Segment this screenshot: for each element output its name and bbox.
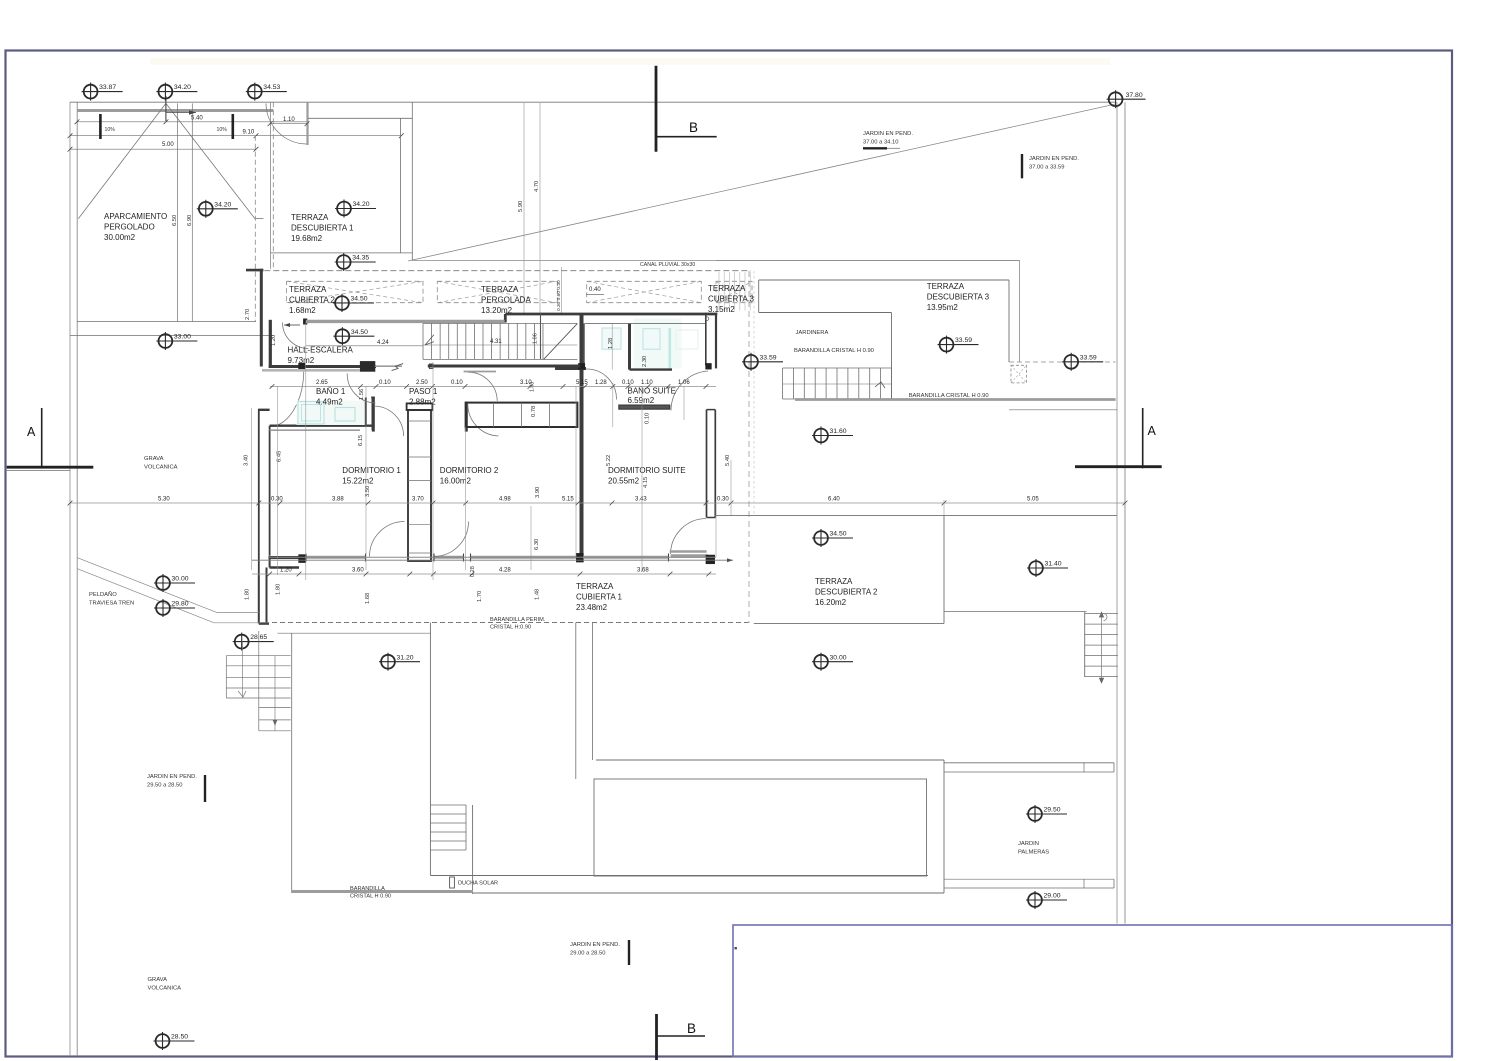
hall top wall (gray) [306,320,505,323]
svg-text:31.60: 31.60 [830,428,847,435]
svg-text:29.50: 29.50 [1044,807,1061,814]
svg-text:4.28: 4.28 [499,568,511,574]
svg-text:B: B [689,120,698,135]
svg-text:DESCUBIERTA 2: DESCUBIERTA 2 [815,588,878,597]
svg-text:5.90: 5.90 [518,201,524,212]
stair treads [422,323,424,359]
svg-text:1.80: 1.80 [276,584,282,595]
outer boundary to 1019 [716,260,1020,262]
level marker 33.59 [1062,353,1103,371]
level marker 31.20 [379,653,420,671]
bano1 bathtub [298,402,324,425]
level marker 31.40 [1027,559,1068,577]
carport roof ridge diagonal right [166,103,255,218]
svg-text:1.20: 1.20 [271,335,277,346]
svg-text:16.00m2: 16.00m2 [440,477,472,486]
svg-text:PALMERAS: PALMERAS [1018,850,1049,856]
pool deck bottom [430,875,928,877]
svg-text:34.35: 34.35 [352,255,369,262]
svg-text:34.20: 34.20 [174,84,191,91]
svg-text:TERRAZA: TERRAZA [576,582,614,591]
pergola dashed box 4 with grating [716,281,752,302]
svg-text:3.10: 3.10 [520,380,532,386]
bath suite left wall [628,323,631,369]
svg-text:0.10: 0.10 [379,380,391,386]
stair bottom boundary [423,358,577,360]
terraza descubierta 2 box [715,515,1117,517]
svg-text:6.40: 6.40 [828,497,840,503]
svg-text:4.31: 4.31 [490,339,502,345]
bano1 floor bottom wall [270,425,372,427]
faint scan tint strip [150,58,1110,65]
svg-text:CUBIERTA 1: CUBIERTA 1 [576,593,622,602]
svg-text:3.70: 3.70 [412,497,424,503]
carport post line A [177,103,179,321]
hall door jamb nub [304,319,307,324]
svg-text:4.98: 4.98 [499,497,511,503]
svg-text:5.05: 5.05 [1027,497,1039,503]
svg-text:1.20: 1.20 [280,568,292,574]
dorm2 door leaf [465,402,468,432]
svg-text:TERRAZA: TERRAZA [927,282,965,291]
svg-text:0.10: 0.10 [451,380,463,386]
svg-text:4.24: 4.24 [377,340,389,346]
svg-text:1.28: 1.28 [595,380,607,386]
svg-text:CUBIERTA 3: CUBIERTA 3 [708,295,754,304]
svg-text:34.50: 34.50 [830,531,847,538]
svg-text:5.22: 5.22 [606,455,612,466]
level marker 31.60 [812,427,853,445]
svg-text:29.00: 29.00 [1044,893,1061,900]
svg-text:1.68: 1.68 [365,593,371,604]
bottom wall: left corner piece [269,556,300,559]
ducha solar [450,877,455,888]
svg-text:5.00: 5.00 [162,142,174,148]
dorm2 lower door arc [434,522,469,557]
level marker 33.87 [82,83,123,101]
jardin palmeras top double line [944,762,1114,764]
svg-text:33.00: 33.00 [174,334,191,341]
svg-text:3.43: 3.43 [635,497,647,503]
svg-text:31.40: 31.40 [1045,561,1062,568]
dim row y=386 [270,386,716,388]
svg-text:DORMITORIO 2: DORMITORIO 2 [440,466,499,475]
jardinera box [759,312,892,314]
hall door arc [283,323,309,349]
svg-text:28.50: 28.50 [171,1034,188,1041]
svg-text:10%: 10% [105,127,116,133]
dorm2 closet [466,403,578,427]
svg-text:TRAVIESA TREN: TRAVIESA TREN [89,601,134,607]
svg-text:2.30: 2.30 [642,356,648,367]
pergola dashed box 3 [587,281,702,302]
svg-text:30.00: 30.00 [830,654,847,661]
hall left wall [269,320,272,366]
svg-text:DORMITORIO SUITE: DORMITORIO SUITE [608,466,686,475]
window suite [583,556,669,559]
svg-text:1.28: 1.28 [608,338,614,349]
svg-text:1.48: 1.48 [535,589,541,600]
svg-text:29.80: 29.80 [172,601,189,608]
svg-text:9.10: 9.10 [243,130,255,136]
left outdoor stairs [226,655,290,657]
svg-text:31.20: 31.20 [397,654,414,661]
svg-text:BAÑO SUITE: BAÑO SUITE [628,387,676,396]
jardinera stairs [783,367,892,369]
svg-text:DESCUBIERTA 1: DESCUBIERTA 1 [291,224,354,233]
bath suite floor wash [634,319,682,369]
level marker 33.00 [156,332,197,350]
svg-text:33.59: 33.59 [1080,354,1097,361]
svg-text:CUBIERTA 2: CUBIERTA 2 [289,296,335,305]
svg-text:BARANDILLA CRISTAL H 0.90: BARANDILLA CRISTAL H 0.90 [909,393,989,399]
svg-text:0.28: 0.28 [470,566,476,577]
level marker 34.53 [246,83,287,101]
svg-text:3.88: 3.88 [332,497,344,503]
section marker B bottom [655,1014,658,1060]
section marker A left [41,408,43,467]
barandilla gray line bottom of terrace [795,398,1116,401]
svg-text:CANAL PLUVIAL 30x30: CANAL PLUVIAL 30x30 [640,262,695,268]
svg-text:JARDIN EN PEND.: JARDIN EN PEND. [863,131,913,137]
carport bottom line [77,321,256,323]
svg-text:DORMITORIO 1: DORMITORIO 1 [342,466,401,475]
bano1 left exterior wall (outer) [258,409,260,576]
entry door leaf [306,102,308,145]
level marker 33.59 [742,353,783,371]
svg-text:A: A [1148,424,1157,438]
svg-text:CRISTAL H 0.90: CRISTAL H 0.90 [350,894,391,900]
svg-text:5.40: 5.40 [725,455,731,466]
house top wall [505,313,717,316]
svg-text:2.70: 2.70 [245,309,251,320]
pool deck left edge [429,623,431,876]
svg-text:3.60: 3.60 [352,568,364,574]
svg-text:HALL-ESCALERA: HALL-ESCALERA [288,346,354,355]
barandilla dashed line [272,622,748,624]
small circle mark top-right of bath [705,317,709,321]
svg-text:BARANDILLA PERIM.: BARANDILLA PERIM. [490,617,546,623]
svg-text:2.88m2: 2.88m2 [409,398,436,407]
svg-text:JARDIN: JARDIN [1018,841,1039,847]
bottom dimension baseline [252,559,733,561]
svg-text:20.55m2: 20.55m2 [608,477,640,486]
vertical dim lines above house [523,103,525,315]
svg-text:29.00 a 28.50: 29.00 a 28.50 [570,951,605,957]
svg-text:19.68m2: 19.68m2 [291,234,323,243]
lower ground line right of terrace [944,611,1087,613]
canal pluvial dashed line [255,270,750,272]
svg-text:0.10: 0.10 [645,413,651,424]
canal grating hatch [718,272,720,311]
dorm1 upper door arc [374,406,403,436]
svg-text:15.22m2: 15.22m2 [342,477,374,486]
svg-text:0.30 0.60 0.30: 0.30 0.60 0.30 [556,280,562,311]
pool basin left edge [472,805,474,894]
svg-text:30.00: 30.00 [172,576,189,583]
svg-text:4.49m2: 4.49m2 [316,398,343,407]
svg-text:GRAVA: GRAVA [148,977,168,983]
empty title block [733,925,1452,1057]
dorm1 door leaf [372,397,375,432]
svg-text:6.15: 6.15 [358,435,364,446]
extension lines vertical [251,408,253,570]
hall bottom wall left [269,365,300,368]
carport dimension line 5.00 [70,148,256,150]
svg-text:VOLCANICA: VOLCANICA [144,465,178,471]
hall to paso door arc [347,373,375,403]
svg-text:1.80: 1.80 [244,589,250,600]
svg-text:6.50: 6.50 [172,215,178,226]
carport post line B [191,103,193,321]
svg-text:GRAVA: GRAVA [144,456,164,462]
level marker 34.20 [197,200,238,218]
svg-text:6.59m2: 6.59m2 [628,396,655,405]
svg-text:0.30: 0.30 [717,497,729,503]
svg-text:2.50: 2.50 [416,380,428,386]
svg-text:TERRAZA: TERRAZA [481,285,519,294]
house west wall lower [260,269,263,367]
svg-text:37.00 a 34.10: 37.00 a 34.10 [863,140,898,146]
svg-text:JARDIN EN PEND.: JARDIN EN PEND. [1029,156,1079,162]
entry door arc top [266,104,307,145]
level marker 34.50 [333,327,374,345]
level marker 34.35 [335,253,376,271]
window dorm1 [306,556,367,559]
svg-text:34.20: 34.20 [214,201,231,208]
paso closet body [408,410,431,561]
suite window sill gray [671,554,708,557]
level marker 29.00 [1026,891,1067,909]
svg-text:B: B [687,1021,696,1036]
vertical dims 0.30/0.60/0.30 [561,267,563,315]
svg-text:33.59: 33.59 [760,354,777,361]
house right wall upper [705,313,707,366]
wall break symbol [375,365,402,367]
pool inner rect [594,779,927,876]
wall above dorm2 closet [428,365,580,368]
svg-text:3.68: 3.68 [637,568,649,574]
svg-text:5.40: 5.40 [191,116,203,122]
hall entry arrow [284,324,300,326]
closet front gray line [464,371,496,373]
barandilla gray line bottom [292,890,473,893]
svg-text:29.50 a 28.50: 29.50 a 28.50 [147,783,182,789]
svg-text:JARDINERA: JARDINERA [796,330,829,336]
wall between bano1 and paso [365,398,367,427]
window jamb ticks [305,554,307,562]
svg-text:6.90: 6.90 [187,215,193,226]
bano1 door arc [270,370,304,427]
carport pergola top edge (gray) [77,109,273,112]
bath suite door arc (into suite) [671,371,708,411]
svg-text:16.20m2: 16.20m2 [815,598,847,607]
svg-text:4.70: 4.70 [534,181,540,192]
terrain slope diagonal [408,104,1116,261]
svg-text:1.56: 1.56 [359,389,365,400]
ridge apex tick [165,96,167,121]
svg-text:6.30: 6.30 [534,539,540,550]
terraza descubierta 1 left boundary [270,102,272,269]
paso closet top box [407,403,433,410]
svg-text:TERRAZA: TERRAZA [291,213,329,222]
svg-text:10%: 10% [217,127,228,133]
dashed line at 33.59 level [1009,361,1116,363]
svg-text:3.90: 3.90 [535,487,541,498]
svg-text:33.59: 33.59 [955,337,972,344]
terraza descubierta 1 box [308,117,412,119]
svg-text:33.87: 33.87 [99,84,116,91]
svg-text:0.10: 0.10 [622,380,634,386]
level marker 29.50 [1026,805,1067,823]
svg-text:37.80: 37.80 [1126,92,1143,99]
dashed axis x=749 [748,271,750,623]
svg-text:1.10: 1.10 [641,380,653,386]
small dashed planter box [1011,365,1027,383]
garden stairs right [1084,612,1086,677]
svg-text:JARDIN EN PEND.: JARDIN EN PEND. [147,774,197,780]
svg-text:PERGOLADA: PERGOLADA [481,296,531,305]
level marker 29.80 [154,599,195,617]
pool steps [430,804,466,806]
svg-text:JARDIN EN PEND.: JARDIN EN PEND. [570,942,620,948]
svg-text:0.78: 0.78 [531,406,537,417]
suite right wall [706,410,708,518]
paso-dorm2 door arc upper [468,372,497,401]
svg-text:PELDAÑO: PELDAÑO [89,591,117,598]
wall junction block [360,362,374,372]
svg-text:TERRAZA: TERRAZA [815,577,853,586]
level marker 37.80 [1107,90,1146,108]
stair cut diagonal [544,324,578,360]
bano1 left exterior wall (inner) [269,426,271,556]
bath suite fixtures [643,329,660,350]
slope tick left [99,114,102,139]
level marker 34.20 [156,83,197,101]
svg-text:34.53: 34.53 [263,84,280,91]
section marker B top [655,66,658,152]
svg-text:1.70: 1.70 [477,591,483,602]
svg-text:CRISTAL H:0.90: CRISTAL H:0.90 [490,625,531,631]
svg-text:VOLCANICA: VOLCANICA [148,986,182,992]
svg-text:DESCUBIERTA 3: DESCUBIERTA 3 [927,293,990,302]
svg-text:34.50: 34.50 [351,296,368,303]
vertical from barandilla to pool [592,623,594,761]
svg-text:34.20: 34.20 [353,201,370,208]
svg-text:1.68m2: 1.68m2 [289,306,316,315]
hall bottom wall right [305,365,376,368]
svg-text:1.06: 1.06 [533,333,539,344]
level marker 34.50 [812,529,853,547]
level marker 28.50 [154,1032,195,1050]
svg-text:2.65: 2.65 [316,380,328,386]
svg-text:APARCAMIENTO: APARCAMIENTO [104,212,167,221]
svg-text:BARANDILLA CRISTAL H 0.90: BARANDILLA CRISTAL H 0.90 [794,348,874,354]
window dorm2 right [470,556,577,559]
svg-text:37.00 a 33.59: 37.00 a 33.59 [1029,165,1064,171]
dim row y=503 [70,502,1125,504]
svg-text:30.00m2: 30.00m2 [104,233,136,242]
level marker 34.50 [333,294,374,312]
svg-text:1.10: 1.10 [283,117,295,123]
carport dimension line 5.40/9.10 [77,121,308,123]
peldano diagonals [77,558,217,613]
pergola dashed box 2 [437,281,557,302]
bath suite south wall [555,367,586,370]
section marker A right [1142,408,1144,468]
carport dimension line 10% [70,135,401,137]
bottom wall step-out [269,558,271,568]
level marker 30.00 [812,653,853,671]
slope tick right [232,114,235,139]
dashed carport right boundary [254,136,256,322]
bano1 toilet [335,408,355,422]
svg-text:5.15: 5.15 [562,497,574,503]
wall below stairs [428,365,583,368]
bano1 floor wash [297,401,366,426]
svg-text:13.95m2: 13.95m2 [927,303,959,312]
suite door arc [671,519,707,555]
svg-text:3.40: 3.40 [244,455,250,466]
svg-text:BARANDILLA: BARANDILLA [350,886,385,892]
door jamb [299,363,305,369]
site boundary top line [70,101,1116,103]
roof line above house [412,260,1019,262]
carport roof ridge diagonal left [78,103,165,218]
svg-text:34.50: 34.50 [351,329,368,336]
dorm1 lower door arc [370,522,405,557]
bath door arc small [586,369,617,400]
window dorm2 left [433,556,464,559]
suite wardrobe dark band [619,405,670,409]
dim row y=574 [252,573,716,575]
level marker 33.59 [938,336,979,354]
stair direction chevron [425,335,434,345]
wall between stairs/dorm2 and suite (vertical) [580,314,584,561]
svg-text:PASO 1: PASO 1 [409,387,438,396]
stair center line [423,344,577,346]
level marker 30.00 [154,574,195,592]
jardin palmeras bottom double line [944,878,1114,880]
svg-text:DUCHA SOLAR: DUCHA SOLAR [458,881,498,887]
suite closet niche [583,324,585,369]
svg-text:TERRAZA: TERRAZA [708,284,746,293]
dorm2 upper door arc [468,404,499,436]
svg-text:PERGOLADO: PERGOLADO [104,223,155,232]
top wall jog at stairs [540,313,542,359]
site boundary right double line [1116,102,1118,923]
svg-text:A: A [27,425,36,439]
svg-text:9.73m2: 9.73m2 [288,356,315,365]
pergola dashed box 1 [287,281,424,302]
suite door sill [670,550,707,553]
svg-text:BAÑO 1: BAÑO 1 [316,387,346,396]
bath suite inner face line [585,322,706,324]
svg-text:4.15: 4.15 [643,477,649,488]
pool outer rect [596,759,944,761]
svg-text:23.48m2: 23.48m2 [576,603,608,612]
level marker 28.65 [233,633,274,651]
gray hatch band below hall wall [262,369,360,372]
svg-text:TERRAZA: TERRAZA [289,285,327,294]
terraza descubierta 3 outer box [759,279,1009,281]
level marker 34.20 [335,200,376,218]
scan artifact dot [735,947,737,949]
stair top boundary [423,322,577,324]
svg-text:5.30: 5.30 [158,497,170,503]
svg-text:0.40: 0.40 [589,287,601,293]
site boundary left double line [69,102,71,1056]
